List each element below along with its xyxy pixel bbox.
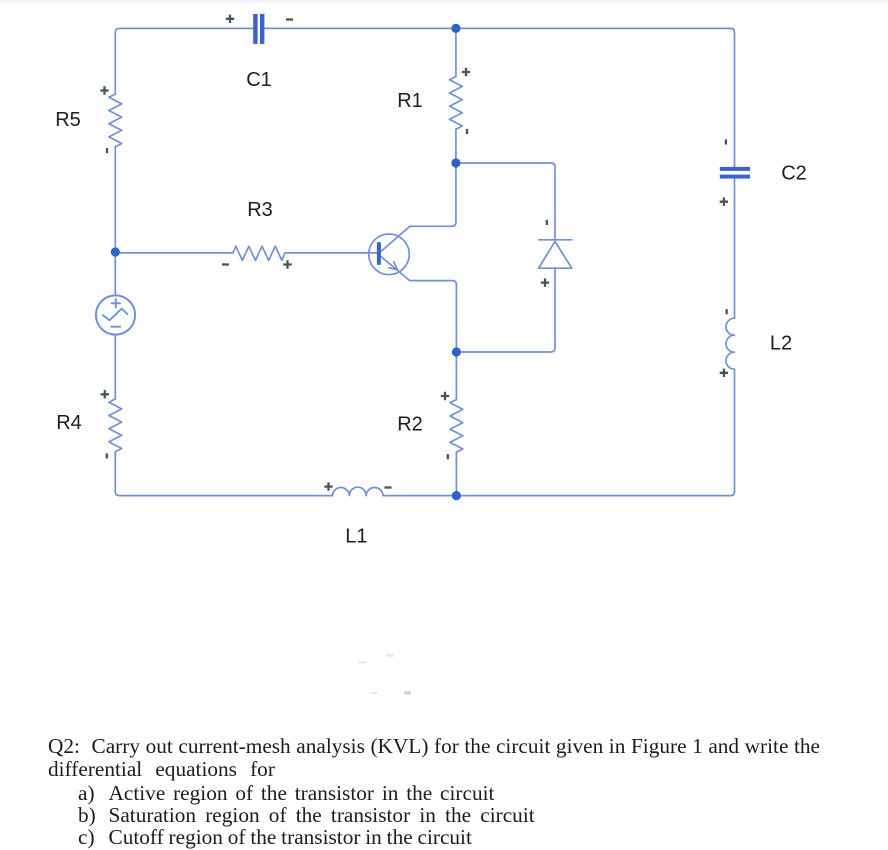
R2 minus tick <box>447 454 449 459</box>
resistor R2 <box>450 400 463 453</box>
resistor R2 leads <box>455 352 457 496</box>
L1 plus <box>324 482 332 490</box>
inductor L2 <box>726 318 735 369</box>
resistor R1 <box>450 77 463 130</box>
source plus <box>112 299 121 308</box>
diode D1 triangle <box>539 241 572 268</box>
wire diode bottom to node <box>461 268 555 352</box>
node bottom R2 <box>452 491 461 500</box>
wire R5 to source <box>114 147 116 296</box>
node top R1 <box>451 24 460 33</box>
node collector <box>451 158 460 167</box>
resistor R3 <box>233 246 285 260</box>
wire source to R4 <box>114 335 116 399</box>
resistor R4 <box>109 399 122 452</box>
L2 minus tick <box>725 309 727 314</box>
R1 minus tick <box>466 129 468 134</box>
R1 plus <box>462 68 470 76</box>
transistor emitter arrowhead <box>389 262 398 270</box>
svg-text:R2: R2 <box>397 414 423 436</box>
junction node dots <box>111 24 461 500</box>
svg-text:R3: R3 <box>247 199 273 221</box>
resistor R1 leads <box>455 28 457 163</box>
wire R4 to bottom-left corner <box>115 452 119 496</box>
R2 plus <box>441 392 449 400</box>
wire node to R3 <box>115 252 233 254</box>
C2 plus <box>720 198 728 206</box>
item c <box>78 826 472 848</box>
faint page-top rule <box>0 0 888 2</box>
wire L2 to C2 <box>734 179 736 318</box>
question line 2 <box>48 758 275 780</box>
item b <box>78 804 535 826</box>
wire R3 to transistor base <box>285 252 377 254</box>
C2 minus tick <box>725 139 727 144</box>
wire top-left corner + left wire down to R5 <box>115 28 119 94</box>
svg-text:C1: C1 <box>246 69 272 91</box>
transistor Q1 circle <box>369 234 410 275</box>
inductor L1 <box>333 487 384 495</box>
transistor base bar <box>377 242 381 265</box>
wire right lower to L2 <box>734 369 736 491</box>
wire top right segment <box>265 27 731 29</box>
question line 1 <box>48 735 820 757</box>
C1 plus <box>226 15 234 23</box>
resistor R5 <box>109 94 122 147</box>
svg-text:L1: L1 <box>345 526 367 548</box>
R5 plus <box>100 86 108 94</box>
wire bottom right segment + corner <box>383 492 735 496</box>
R4 minus tick <box>106 453 108 458</box>
L2 plus <box>720 369 728 377</box>
C1 minus <box>286 18 293 20</box>
faint scan smudges <box>358 654 411 695</box>
R5 minus tick <box>106 148 108 153</box>
source wave <box>103 309 127 321</box>
diode plus <box>541 278 549 286</box>
transistor collector path up to node <box>381 163 456 252</box>
wire C2 to top-right corner <box>731 28 735 166</box>
wire top left segment <box>119 27 253 29</box>
diode minus tick <box>546 220 548 225</box>
L1 minus <box>385 486 392 488</box>
svg-text:R1: R1 <box>397 90 423 112</box>
capacitor C2 plates <box>720 167 750 179</box>
svg-text:C2: C2 <box>781 162 807 184</box>
node emitter <box>452 347 461 356</box>
svg-text:R4: R4 <box>56 412 82 434</box>
node left mid <box>111 247 120 256</box>
R3 plus <box>283 260 291 268</box>
wire node to diode branch top <box>456 163 555 240</box>
svg-text:L2: L2 <box>770 333 792 355</box>
item a <box>78 782 494 804</box>
transistor emitter path down to node <box>381 257 457 353</box>
source minus <box>111 326 120 328</box>
R3 minus <box>222 263 229 265</box>
svg-text:R5: R5 <box>55 109 81 131</box>
capacitor C1 plates <box>253 14 264 44</box>
source V1 circle <box>96 295 135 334</box>
diode D1 cathode bar <box>539 239 572 241</box>
polarity marks <box>100 15 728 491</box>
wire bottom left segment <box>119 495 332 497</box>
R4 plus <box>101 390 109 398</box>
